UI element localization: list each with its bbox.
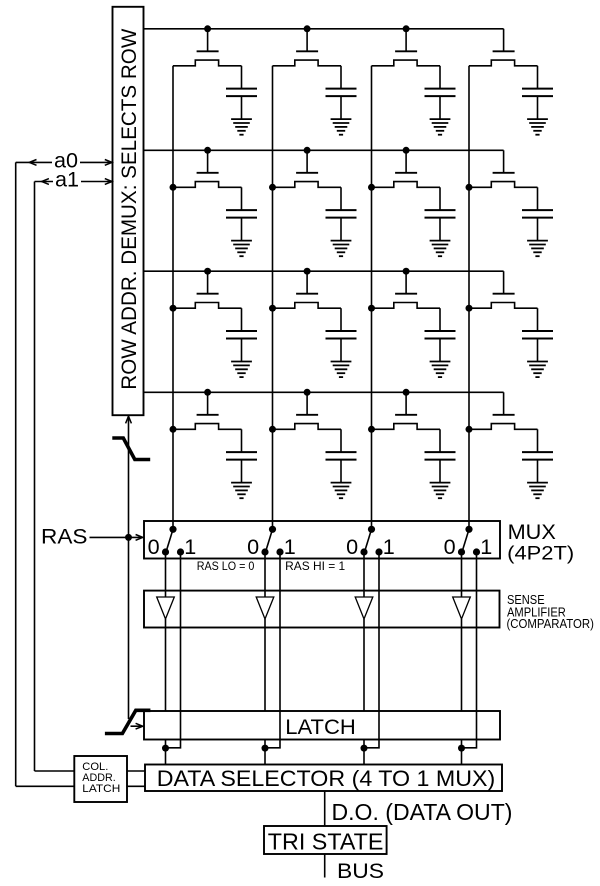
- transistor Q34 gate bar: [493, 293, 515, 295]
- transistor Q44 channel: [469, 424, 538, 430]
- wire strobe into latch: [131, 725, 143, 727]
- switch SW2 lever: [266, 529, 273, 552]
- sense amplifier box: [144, 591, 500, 628]
- tri state box: [264, 826, 387, 854]
- transistor Q11 channel: [173, 60, 242, 66]
- wire Q34 drain to C34: [537, 308, 539, 331]
- wire a1 horizontal: [35, 181, 54, 183]
- wire a0 vertical: [15, 162, 17, 786]
- wire contact 0 col 3 to sense amp: [363, 552, 365, 597]
- wire Q41 drain to C41: [241, 429, 243, 452]
- RAS falling edge strobe symbol: [112, 438, 150, 460]
- capacitor C23: [425, 209, 456, 211]
- svg-text:RAS: RAS: [41, 525, 88, 549]
- comparator A1: [157, 597, 175, 619]
- ground cell 14: [527, 119, 548, 135]
- junction bit line col 4 row 2: [466, 184, 473, 191]
- transistor Q24 gate bar: [493, 172, 515, 174]
- wire contact 1 col 4 bypass: [462, 552, 477, 748]
- transistor Q31 gate bar: [197, 293, 219, 295]
- junction bit line col 2 row 4: [269, 426, 276, 433]
- capacitor C41: [226, 451, 257, 453]
- capacitor C42: [326, 451, 357, 453]
- switch SW1 lever: [166, 529, 173, 552]
- junction col 1 merge: [162, 745, 169, 752]
- junction col 4 merge: [458, 745, 465, 752]
- latch rising edge strobe symbol: [105, 710, 150, 733]
- wire contact 1 col 3 bypass: [364, 552, 379, 748]
- transistor Q13 channel: [372, 60, 441, 66]
- svg-text:LATCH: LATCH: [82, 783, 120, 795]
- transistor Q14 gate bar: [493, 50, 515, 52]
- wire Q14 drain to C14: [537, 66, 539, 89]
- junction bit line col 1 row 3: [170, 305, 177, 312]
- bit line col 2: [272, 66, 274, 530]
- capacitor C31: [226, 330, 257, 332]
- transistor Q34 gate wire: [503, 271, 505, 294]
- wire Q22 drain to C22: [340, 187, 342, 210]
- junction word line row 4 gate Q41: [204, 389, 211, 396]
- svg-text:(COMPARATOR): (COMPARATOR): [507, 616, 594, 631]
- capacitor C33: [425, 330, 456, 332]
- transistor Q11 gate bar: [197, 50, 219, 52]
- wire latch output col 1 to data selector: [165, 740, 167, 765]
- transistor Q33 gate wire: [405, 271, 407, 294]
- wire Q32 drain to C32: [340, 308, 342, 331]
- capacitor C12: [326, 88, 357, 90]
- transistor Q22 gate wire: [306, 150, 308, 173]
- arrowhead into demux bottom: [126, 416, 132, 423]
- wire column address latch to data selector upper: [127, 770, 145, 772]
- bit line col 4: [468, 66, 470, 530]
- svg-text:DATA SELECTOR (4 TO 1 MUX): DATA SELECTOR (4 TO 1 MUX): [157, 766, 496, 791]
- junction word line row 3 gate Q33: [403, 268, 410, 275]
- junction word line row 1 gate Q11: [204, 25, 211, 32]
- ground cell 33: [430, 362, 451, 378]
- switch SW2 contact 0: [261, 548, 268, 555]
- wire RAS to demux strobe: [128, 416, 130, 719]
- ground cell 44: [527, 483, 548, 499]
- transistor Q42 channel: [273, 424, 342, 430]
- switch SW3 contact 1: [375, 548, 382, 555]
- svg-text:0: 0: [247, 534, 259, 559]
- junction bit line col 4 row 3: [466, 305, 473, 312]
- switch SW3 common contact: [368, 526, 375, 533]
- word line row 2: [144, 149, 504, 151]
- svg-text:TRI STATE: TRI STATE: [268, 828, 384, 854]
- transistor Q31 channel: [173, 303, 242, 309]
- svg-text:RAS HI = 1: RAS HI = 1: [285, 559, 345, 573]
- wire Q12 drain to C12: [340, 66, 342, 89]
- wire column address latch to data selector lower: [127, 785, 145, 787]
- transistor Q23 channel: [372, 182, 441, 188]
- ground cell 13: [430, 119, 451, 135]
- capacitor C13: [425, 88, 456, 90]
- row address demux U1 box: [113, 7, 144, 415]
- wire a1 to column address latch: [35, 770, 75, 772]
- transistor Q13 gate wire: [405, 29, 407, 52]
- transistor Q32 gate wire: [306, 271, 308, 294]
- wire Q43 drain to C43: [439, 429, 441, 452]
- transistor Q41 channel: [173, 424, 242, 430]
- transistor Q32 gate bar: [296, 293, 318, 295]
- transistor Q43 channel: [372, 424, 441, 430]
- transistor Q34 channel: [469, 303, 538, 309]
- switch SW4 contact 0: [458, 548, 465, 555]
- wire a1 vertical: [34, 182, 36, 772]
- switch SW1 contact 0: [162, 548, 169, 555]
- transistor Q44 gate wire: [503, 392, 505, 415]
- junction word line row 3 gate Q31: [204, 268, 211, 275]
- transistor Q12 channel: [273, 60, 342, 66]
- junction bit line col 1 row 4: [170, 426, 177, 433]
- transistor Q22 channel: [273, 182, 342, 188]
- wire sense amp 1 output to latch: [165, 619, 167, 711]
- junction word line row 4 gate Q42: [304, 389, 311, 396]
- wire latch output col 3 to data selector: [363, 740, 365, 765]
- transistor Q42 gate wire: [306, 392, 308, 415]
- svg-text:0: 0: [148, 534, 160, 559]
- svg-text:ROW ADDR. DEMUX: SELECTS ROW: ROW ADDR. DEMUX: SELECTS ROW: [118, 28, 141, 389]
- wire data selector to tri state: [324, 791, 326, 826]
- junction word line row 2 gate Q23: [403, 147, 410, 154]
- transistor Q23 gate bar: [395, 172, 417, 174]
- svg-text:0: 0: [346, 534, 358, 559]
- transistor Q42 gate bar: [296, 414, 318, 416]
- ground cell 41: [231, 483, 252, 499]
- latch box: [144, 711, 500, 740]
- capacitor C43: [425, 451, 456, 453]
- junction col 3 merge: [361, 745, 368, 752]
- wire Q44 drain to C44: [537, 429, 539, 452]
- switch SW3 contact 0: [360, 548, 367, 555]
- junction bit line col 3 row 2: [368, 184, 375, 191]
- wire a0 horizontal: [16, 161, 52, 163]
- wire contact 0 col 4 to sense amp: [461, 552, 463, 597]
- column address latch box: [74, 756, 127, 802]
- junction col 2 merge: [262, 745, 269, 752]
- junction word line row 1 gate Q12: [304, 25, 311, 32]
- transistor Q14 gate wire: [503, 29, 505, 52]
- transistor Q33 channel: [372, 303, 441, 309]
- transistor Q41 gate wire: [207, 392, 209, 415]
- wire a0 to column address latch: [16, 785, 75, 787]
- wire Q13 drain to C13: [439, 66, 441, 89]
- junction bit line col 3 row 4: [368, 426, 375, 433]
- wire sense amp 3 output to latch: [363, 619, 365, 711]
- switch SW3 lever: [365, 529, 372, 552]
- transistor Q43 gate wire: [405, 392, 407, 415]
- junction bit line col 2 row 3: [269, 305, 276, 312]
- transistor Q44 gate bar: [493, 414, 515, 416]
- wire Q31 drain to C31: [241, 308, 243, 331]
- transistor Q33 gate bar: [395, 293, 417, 295]
- mux U2 box: [144, 521, 500, 559]
- capacitor C44: [522, 451, 553, 453]
- arrowhead strobe into latch: [136, 723, 143, 729]
- transistor Q21 gate wire: [207, 150, 209, 173]
- wire sense amp 2 output to latch: [264, 619, 266, 711]
- comparator A4: [453, 597, 471, 619]
- wire Q23 drain to C23: [439, 187, 441, 210]
- wire RAS: [90, 536, 143, 538]
- capacitor C14: [522, 88, 553, 90]
- word line row 3: [144, 270, 504, 272]
- wire contact 0 col 2 to sense amp: [264, 552, 266, 597]
- transistor Q13 gate bar: [395, 50, 417, 52]
- ground cell 24: [527, 241, 548, 257]
- wire C41 to ground: [241, 460, 243, 483]
- junction bit line col 2 row 2: [269, 184, 276, 191]
- junction bit line col 1 row 2: [170, 184, 177, 191]
- svg-text:1: 1: [383, 534, 395, 559]
- junction word line row 1 gate Q13: [403, 25, 410, 32]
- wire C12 to ground: [340, 96, 342, 119]
- capacitor C11: [226, 88, 257, 90]
- transistor Q12 gate wire: [306, 29, 308, 52]
- junction bit line col 3 row 3: [368, 305, 375, 312]
- wire C44 to ground: [537, 460, 539, 483]
- transistor Q31 gate wire: [207, 271, 209, 294]
- bit line col 3: [371, 66, 373, 530]
- transistor Q11 gate wire: [207, 29, 209, 52]
- wire Q11 drain to C11: [241, 66, 243, 89]
- switch SW1 contact 1: [177, 548, 184, 555]
- ground cell 31: [231, 362, 252, 378]
- ground cell 32: [331, 362, 352, 378]
- ground cell 12: [331, 119, 352, 135]
- wire contact 1 col 2 bypass: [265, 552, 280, 748]
- svg-text:1: 1: [480, 534, 492, 559]
- svg-text:LATCH: LATCH: [285, 716, 356, 739]
- wire C14 to ground: [537, 96, 539, 119]
- comparator A3: [355, 597, 373, 619]
- ground cell 22: [331, 241, 352, 257]
- transistor Q21 gate bar: [197, 172, 219, 174]
- data selector box: [145, 765, 502, 792]
- transistor Q43 gate bar: [395, 414, 417, 416]
- wire C32 to ground: [340, 339, 342, 362]
- wire C11 to ground: [241, 96, 243, 119]
- svg-text:MUX: MUX: [508, 519, 557, 544]
- transistor Q12 gate bar: [296, 50, 318, 52]
- transistor Q23 gate wire: [405, 150, 407, 173]
- wire C24 to ground: [537, 218, 539, 241]
- svg-text:0: 0: [444, 534, 456, 559]
- wire C31 to ground: [241, 339, 243, 362]
- arrowhead RAS into MUX: [136, 535, 143, 541]
- transistor Q41 gate bar: [197, 414, 219, 416]
- ground cell 21: [231, 241, 252, 257]
- arrowhead a1 left: [42, 179, 49, 185]
- switch SW4 lever: [462, 529, 469, 552]
- ground cell 43: [430, 483, 451, 499]
- word line row 1: [144, 28, 504, 30]
- wire Q42 drain to C42: [340, 429, 342, 452]
- wire Q24 drain to C24: [537, 187, 539, 210]
- arrowhead a0 into demux: [105, 160, 112, 166]
- transistor Q14 channel: [469, 60, 538, 66]
- svg-text:1: 1: [184, 534, 196, 559]
- junction bit line col 4 row 4: [466, 426, 473, 433]
- wire sense amp 4 output to latch: [461, 619, 463, 711]
- ground cell 11: [231, 119, 252, 135]
- wire Q33 drain to C33: [439, 308, 441, 331]
- junction word line row 4 gate Q43: [403, 389, 410, 396]
- wire latch output col 4 to data selector: [461, 740, 463, 765]
- word line row 4: [144, 391, 504, 393]
- capacitor C24: [522, 209, 553, 211]
- wire C22 to ground: [340, 218, 342, 241]
- ground cell 34: [527, 362, 548, 378]
- wire tri state to bus: [324, 854, 326, 878]
- wire C43 to ground: [439, 460, 441, 483]
- switch SW2 common contact: [269, 526, 276, 533]
- switch SW1 common contact: [169, 526, 176, 533]
- svg-text:D.O. (DATA OUT): D.O. (DATA OUT): [332, 799, 513, 825]
- svg-text:1: 1: [284, 534, 296, 559]
- wire C33 to ground: [439, 339, 441, 362]
- comparator A2: [256, 597, 274, 619]
- arrowhead a1 into demux: [105, 179, 112, 185]
- wire latch output col 2 to data selector: [264, 740, 266, 765]
- arrowhead a0 left: [29, 160, 36, 166]
- switch SW4 common contact: [465, 526, 472, 533]
- svg-text:ADDR.: ADDR.: [82, 772, 115, 784]
- transistor Q22 gate bar: [296, 172, 318, 174]
- capacitor C21: [226, 209, 257, 211]
- junction RAS: [125, 534, 132, 541]
- wire C13 to ground: [439, 96, 441, 119]
- switch SW2 contact 1: [276, 548, 283, 555]
- transistor Q24 channel: [469, 182, 538, 188]
- wire C42 to ground: [340, 460, 342, 483]
- ground cell 23: [430, 241, 451, 257]
- capacitor C22: [326, 209, 357, 211]
- wire contact 1 col 1 bypass: [166, 552, 181, 748]
- bit line col 1: [172, 66, 174, 530]
- switch SW4 contact 1: [473, 548, 480, 555]
- svg-text:a1: a1: [55, 167, 79, 192]
- capacitor C32: [326, 330, 357, 332]
- transistor Q21 channel: [173, 182, 242, 188]
- wire C21 to ground: [241, 218, 243, 241]
- svg-text:RAS LO = 0: RAS LO = 0: [197, 559, 255, 573]
- transistor Q32 channel: [273, 303, 342, 309]
- capacitor C34: [522, 330, 553, 332]
- transistor Q24 gate wire: [503, 150, 505, 173]
- junction word line row 2 gate Q22: [304, 147, 311, 154]
- wire C34 to ground: [537, 339, 539, 362]
- svg-text:BUS: BUS: [337, 859, 384, 883]
- wire contact 0 col 1 to sense amp: [165, 552, 167, 597]
- junction word line row 2 gate Q21: [204, 147, 211, 154]
- wire Q21 drain to C21: [241, 187, 243, 210]
- svg-text:(4P2T): (4P2T): [507, 544, 574, 565]
- wire C23 to ground: [439, 218, 441, 241]
- ground cell 42: [331, 483, 352, 499]
- junction word line row 3 gate Q32: [304, 268, 311, 275]
